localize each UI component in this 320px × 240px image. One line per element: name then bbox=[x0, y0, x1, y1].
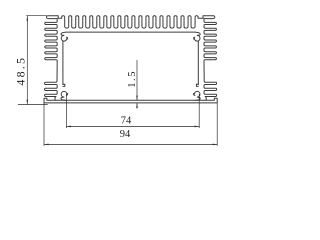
screw boss bottom-left bbox=[61, 84, 68, 100]
heatsink profile top fin comb bbox=[46, 16, 214, 28]
svg-text:94: 94 bbox=[120, 129, 131, 140]
dim 48.5 extension lines bbox=[18, 16, 48, 105]
dim 94 line bbox=[44, 143, 217, 145]
inner ceiling bbox=[65, 31, 195, 33]
dim 1.5 leader bbox=[136, 60, 138, 109]
left fin comb wall bbox=[45, 19, 58, 101]
svg-text:48.5: 48.5 bbox=[14, 56, 28, 86]
screw boss top-right bbox=[194, 32, 201, 41]
dim 74 line bbox=[66, 125, 199, 127]
left inner wall bbox=[62, 41, 64, 85]
right inner wall bbox=[197, 41, 199, 85]
dim 94 extension lines bbox=[44, 103, 217, 146]
right fin comb wall bbox=[204, 19, 217, 101]
screw boss bottom-right bbox=[194, 84, 201, 100]
svg-text:74: 74 bbox=[121, 116, 132, 127]
dim 48.5 line bbox=[26, 16, 28, 105]
screw boss top-left bbox=[61, 32, 68, 41]
svg-text:1.5: 1.5 bbox=[127, 70, 138, 88]
dim 74 extension lines bbox=[66, 94, 199, 128]
bottom plate bbox=[44, 98, 217, 103]
